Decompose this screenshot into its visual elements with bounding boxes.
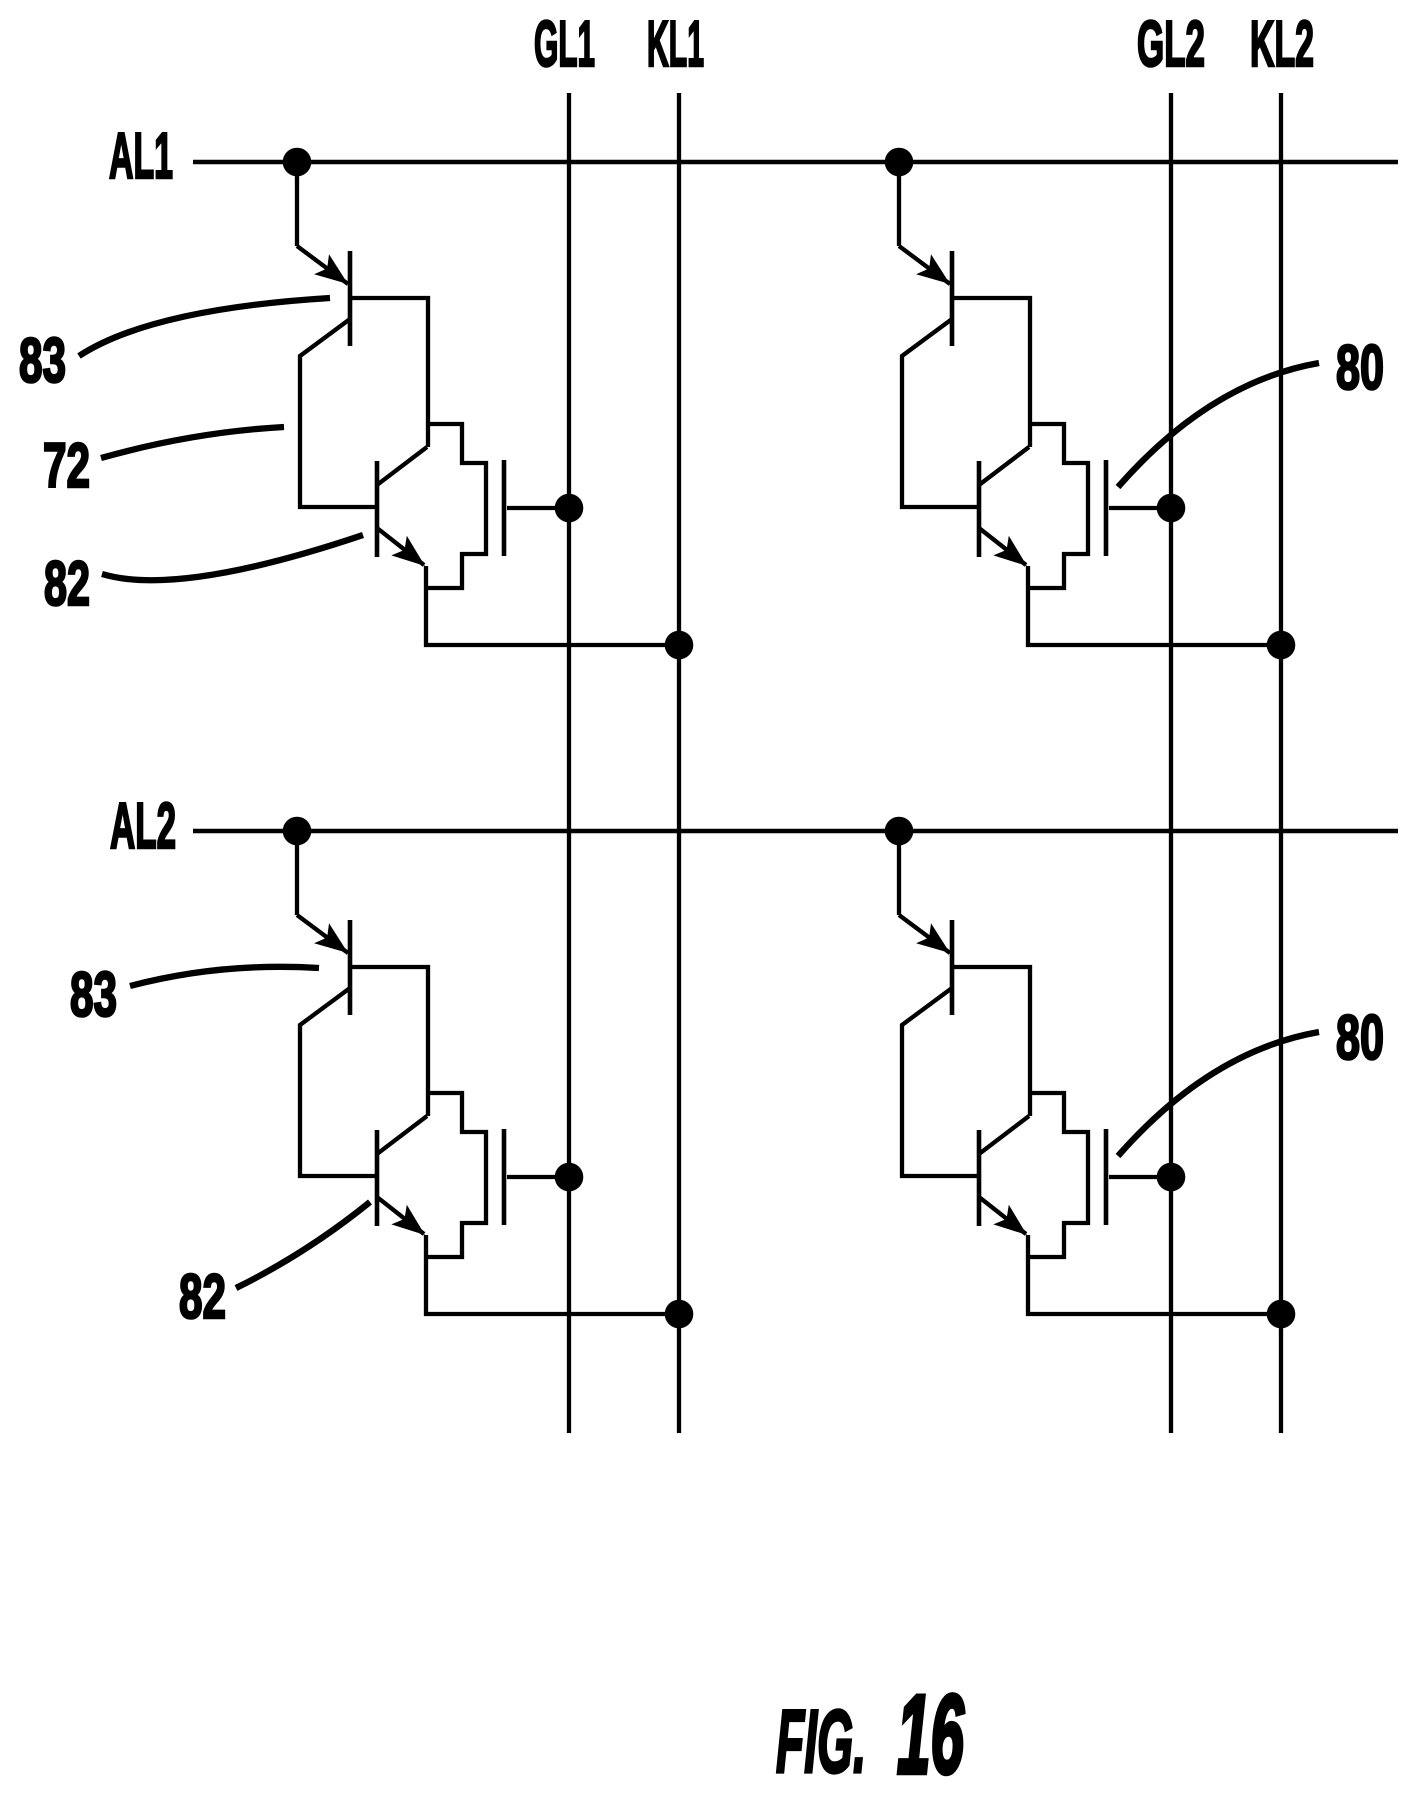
transistor 82 collector lead in cell 3 (row AL2, cols GL1/KL1) [377, 1116, 427, 1154]
node: junction dot on GL1 for gate of cell 3 (row AL2, cols GL1/KL1) [555, 1163, 584, 1192]
leader line from 72 to floating-gate region in cell 1 [101, 427, 284, 458]
wire: AL1 junction down to emitter of bipolar transistor 83 in cell 1 (row AL1, cols GL1/KL1) [297, 162, 348, 284]
reference numeral 83 (lower left) [70, 960, 117, 1030]
wire: gate 80 to GL1 in cell 3 (row AL2, cols GL1/KL1) [507, 1175, 569, 1179]
net label AL1 [109, 119, 173, 192]
wire: collector of 83 down to base of transistor 82 in cell 3 (row AL2, cols GL1/KL1) [300, 988, 377, 1176]
svg-text:72: 72 [43, 431, 90, 501]
wire: AL2 junction down to emitter of bipolar transistor 83 in cell 4 (row AL2, cols GL2/KL2) [899, 831, 950, 953]
transistor 83 emitter arrow (pointing into base bar) in cell 4 (row AL2, cols GL2/KL2) [916, 923, 957, 963]
transistor 82 base bar in cell 1 (row AL1, cols GL1/KL1) [375, 461, 380, 557]
control gate electrode 80 bar in cell 4 (row AL2, cols GL2/KL2) [1104, 1129, 1109, 1225]
net label GL1 [534, 7, 595, 80]
gate line GL2 (vertical) [1169, 93, 1173, 1433]
reference numeral 72 (upper left) [43, 431, 90, 501]
figure caption number 16 [897, 1672, 964, 1797]
floating-gate channel contact (stepped region 72) in cell 4 (row AL2, cols GL2/KL2) [1028, 1093, 1088, 1257]
node: junction dot on KL2 for cell 4 (row AL2, cols GL2/KL2) [1267, 1300, 1296, 1329]
wire: emitter of 82 down and over to KL2 in cell 2 (row AL1, cols GL2/KL2) [1028, 566, 1281, 645]
wire: base of 83 over to drain contact of cell transistor in cell 3 (row AL2, cols GL1/KL1) [350, 967, 428, 1116]
leader line from 82 to transistor in cell 1 [102, 535, 363, 580]
transistor 83 emitter arrow (pointing into base bar) in cell 1 (row AL1, cols GL1/KL1) [314, 254, 355, 294]
net label KL1 [647, 7, 704, 80]
node: junction dot on AL1 feeding cell 2 (row AL1, cols GL2/KL2) [885, 148, 914, 177]
wire: base of 83 over to drain contact of cell transistor in cell 4 (row AL2, cols GL2/KL2) [952, 967, 1030, 1116]
transistor 82 base bar in cell 4 (row AL2, cols GL2/KL2) [977, 1130, 982, 1226]
wire: gate 80 to GL1 in cell 1 (row AL1, cols GL1/KL1) [507, 506, 569, 510]
transistor 83 base bar in cell 1 (row AL1, cols GL1/KL1) [348, 251, 353, 346]
wire: emitter of 82 down and over to KL2 in cell 4 (row AL2, cols GL2/KL2) [1028, 1235, 1281, 1314]
transistor 83 base bar in cell 3 (row AL2, cols GL1/KL1) [348, 920, 353, 1015]
svg-text:82: 82 [44, 549, 90, 619]
node: junction dot on KL1 for cell 1 (row AL1, cols GL1/KL1) [665, 631, 694, 660]
svg-text:GL1: GL1 [534, 7, 595, 80]
cathode line KL1 (vertical) [677, 93, 681, 1433]
leader line from 82 to transistor in cell 3 [236, 1202, 370, 1288]
net label KL2 [1250, 7, 1314, 80]
node: junction dot on KL1 for cell 3 (row AL2, cols GL1/KL1) [665, 1300, 694, 1329]
node: junction dot on GL2 for gate of cell 4 (row AL2, cols GL2/KL2) [1157, 1163, 1186, 1192]
transistor 83 emitter arrow (pointing into base bar) in cell 2 (row AL1, cols GL2/KL2) [916, 254, 957, 294]
wire: gate 80 to GL2 in cell 4 (row AL2, cols GL2/KL2) [1109, 1175, 1171, 1179]
node: junction dot on GL2 for gate of cell 2 (row AL1, cols GL2/KL2) [1157, 494, 1186, 523]
leader line from 83 to transistor in cell 1 [79, 298, 330, 356]
net label AL2 [110, 789, 176, 862]
wire: AL1 junction down to emitter of bipolar transistor 83 in cell 2 (row AL1, cols GL2/KL2) [899, 162, 950, 284]
figure caption FIG. [776, 1691, 866, 1791]
wire: base of 83 over to drain contact of cell transistor in cell 2 (row AL1, cols GL2/KL2) [952, 298, 1030, 447]
transistor 82 emitter lead with arrow in cell 4 (row AL2, cols GL2/KL2) [979, 1197, 1035, 1245]
anode word line AL2 (horizontal) [193, 829, 1398, 834]
gate line GL1 (vertical) [567, 93, 571, 1433]
node: junction dot on AL1 feeding cell 1 (row AL1, cols GL1/KL1) [283, 148, 312, 177]
wire: base of 83 over to drain contact of cell transistor in cell 1 (row AL1, cols GL1/KL1) [350, 298, 428, 447]
node: junction dot on AL2 feeding cell 3 (row AL2, cols GL1/KL1) [283, 817, 312, 846]
transistor 82 base bar in cell 2 (row AL1, cols GL2/KL2) [977, 461, 982, 557]
cathode line KL2 (vertical) [1279, 93, 1283, 1433]
transistor 83 emitter arrow (pointing into base bar) in cell 3 (row AL2, cols GL1/KL1) [314, 923, 355, 963]
leader line from 83 to transistor in cell 3 [130, 967, 319, 986]
wire: collector of 83 down to base of transistor 82 in cell 1 (row AL1, cols GL1/KL1) [300, 319, 377, 507]
svg-text:16: 16 [897, 1672, 964, 1793]
wire: emitter of 82 down and over to KL1 in cell 3 (row AL2, cols GL1/KL1) [426, 1235, 679, 1314]
wire: emitter of 82 down and over to KL1 in cell 1 (row AL1, cols GL1/KL1) [426, 566, 679, 645]
transistor 82 emitter lead with arrow in cell 3 (row AL2, cols GL1/KL1) [377, 1197, 433, 1245]
svg-text:KL1: KL1 [647, 7, 704, 80]
control gate electrode 80 bar in cell 1 (row AL1, cols GL1/KL1) [502, 460, 507, 556]
svg-text:AL2: AL2 [110, 789, 176, 862]
leader line from 80 to gate electrode in cell 4 [1118, 1032, 1319, 1156]
node: junction dot on GL1 for gate of cell 1 (row AL1, cols GL1/KL1) [555, 494, 584, 523]
leader line from 80 to gate electrode in cell 2 [1118, 363, 1319, 487]
transistor 82 collector lead in cell 1 (row AL1, cols GL1/KL1) [377, 447, 427, 485]
transistor 82 collector lead in cell 2 (row AL1, cols GL2/KL2) [979, 447, 1029, 485]
svg-text:FIG.: FIG. [776, 1691, 866, 1791]
transistor 82 base bar in cell 3 (row AL2, cols GL1/KL1) [375, 1130, 380, 1226]
transistor 82 collector lead in cell 4 (row AL2, cols GL2/KL2) [979, 1116, 1029, 1154]
svg-text:80: 80 [1336, 333, 1384, 403]
control gate electrode 80 bar in cell 2 (row AL1, cols GL2/KL2) [1104, 460, 1109, 556]
transistor 83 base bar in cell 2 (row AL1, cols GL2/KL2) [950, 251, 955, 346]
anode word line AL1 (horizontal) [193, 160, 1398, 165]
wire: AL2 junction down to emitter of bipolar transistor 83 in cell 3 (row AL2, cols GL1/KL1) [297, 831, 348, 953]
svg-text:AL1: AL1 [109, 119, 173, 192]
reference numeral 82 (lower left) [179, 1262, 226, 1332]
control gate electrode 80 bar in cell 3 (row AL2, cols GL1/KL1) [502, 1129, 507, 1225]
transistor 82 emitter lead with arrow in cell 2 (row AL1, cols GL2/KL2) [979, 528, 1035, 576]
floating-gate channel contact (stepped region 72) in cell 1 (row AL1, cols GL1/KL1) [426, 424, 486, 588]
node: junction dot on KL2 for cell 2 (row AL1, cols GL2/KL2) [1267, 631, 1296, 660]
net label GL2 [1137, 7, 1205, 80]
reference numeral 82 (upper left) [44, 549, 90, 619]
reference numeral 80 (upper right) [1336, 333, 1384, 403]
floating-gate channel contact (stepped region 72) in cell 3 (row AL2, cols GL1/KL1) [426, 1093, 486, 1257]
svg-text:KL2: KL2 [1250, 7, 1314, 80]
wire: collector of 83 down to base of transistor 82 in cell 2 (row AL1, cols GL2/KL2) [902, 319, 979, 507]
transistor 83 base bar in cell 4 (row AL2, cols GL2/KL2) [950, 920, 955, 1015]
svg-text:83: 83 [70, 960, 117, 1030]
wire: collector of 83 down to base of transistor 82 in cell 4 (row AL2, cols GL2/KL2) [902, 988, 979, 1176]
svg-text:80: 80 [1336, 1003, 1384, 1073]
floating-gate channel contact (stepped region 72) in cell 2 (row AL1, cols GL2/KL2) [1028, 424, 1088, 588]
svg-text:GL2: GL2 [1137, 7, 1205, 80]
wire: gate 80 to GL2 in cell 2 (row AL1, cols GL2/KL2) [1109, 506, 1171, 510]
transistor 82 emitter lead with arrow in cell 1 (row AL1, cols GL1/KL1) [377, 528, 433, 576]
reference numeral 80 (lower right) [1336, 1003, 1384, 1073]
node: junction dot on AL2 feeding cell 4 (row AL2, cols GL2/KL2) [885, 817, 914, 846]
svg-text:83: 83 [19, 326, 66, 396]
reference numeral 83 (upper left) [19, 326, 66, 396]
svg-text:82: 82 [179, 1262, 226, 1332]
